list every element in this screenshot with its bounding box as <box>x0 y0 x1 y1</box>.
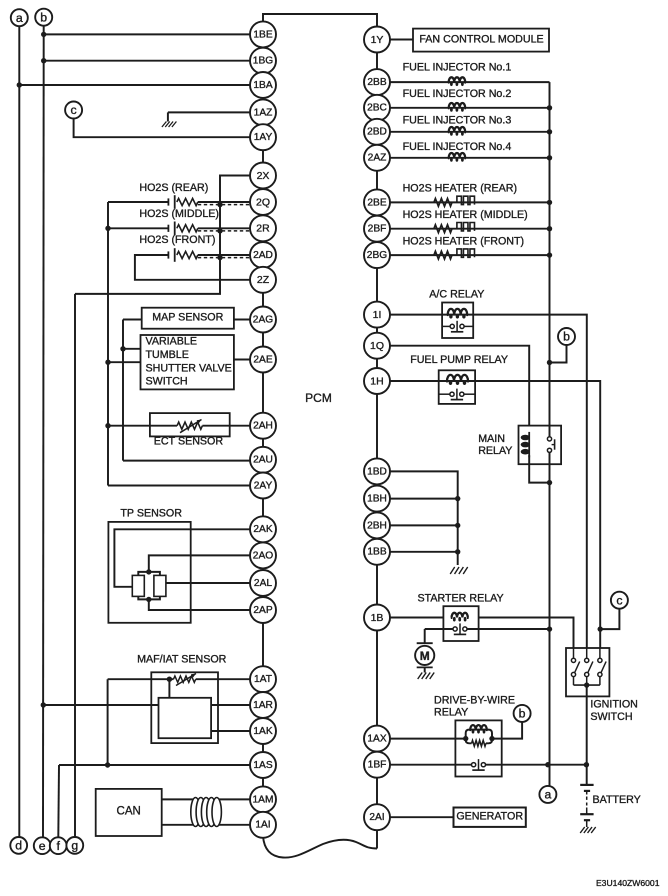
svg-text:2AH: 2AH <box>253 421 273 432</box>
svg-text:E3U140ZW6001: E3U140ZW6001 <box>596 878 660 888</box>
wire 1AX <box>390 736 495 741</box>
wire 1H <box>390 381 600 648</box>
injector L4 wire <box>390 157 550 159</box>
heater 1 coil <box>457 196 475 204</box>
wire 1BF <box>390 762 589 767</box>
svg-text:2BE: 2BE <box>367 197 386 208</box>
svg-text:FUEL INJECTOR No.4: FUEL INJECTOR No.4 <box>403 141 512 153</box>
GENERATOR box <box>454 808 526 827</box>
pin 2AD <box>250 242 276 268</box>
pin 1AK <box>250 718 276 744</box>
label TP SENSOR <box>120 507 182 519</box>
pin 1AX <box>364 726 390 752</box>
svg-text:a: a <box>544 788 551 802</box>
wire 2AK <box>114 529 250 587</box>
wire MAP sensor left <box>123 319 142 321</box>
CAN box <box>96 789 162 836</box>
injector L2 wire <box>390 107 550 109</box>
pin 1BH <box>364 486 390 512</box>
node injector bus junction 2 <box>547 105 552 110</box>
label FUEL INJECTOR No.4 <box>403 141 512 153</box>
svg-text:HO2S (REAR): HO2S (REAR) <box>139 182 208 194</box>
wire injector bus <box>549 82 551 426</box>
wire HO2S FRONT left to 2Z <box>135 255 250 280</box>
svg-text:HO2S (FRONT): HO2S (FRONT) <box>139 234 215 246</box>
starter relay box <box>443 606 478 641</box>
pin 2AG <box>250 307 276 333</box>
node g bottom <box>66 837 83 854</box>
DBW resistor branch <box>466 739 492 747</box>
MAF/IAT outer box <box>151 672 218 743</box>
wire rail MAP-2AU <box>122 320 124 461</box>
TP potentiometer element left <box>132 575 144 596</box>
svg-text:1H: 1H <box>370 375 383 387</box>
ground 1BD group <box>450 567 468 574</box>
pin 1BD <box>364 458 390 484</box>
svg-text:a: a <box>16 11 23 25</box>
svg-text:b: b <box>563 330 570 344</box>
pin 1Y <box>364 27 390 53</box>
wire 1Q to main relay coil <box>390 346 529 426</box>
VTSV switch box <box>141 335 234 389</box>
wire 1Y <box>390 39 413 41</box>
wire VTSV pin1 <box>120 346 140 351</box>
wire 2AO <box>149 555 250 572</box>
pin 1AI <box>250 812 276 838</box>
pin 1AS <box>250 752 276 778</box>
label HO2S HEATER (REAR) <box>403 183 517 195</box>
pin 1BA <box>250 72 276 98</box>
injector L4 coil <box>449 153 466 162</box>
svg-text:ECT SENSOR: ECT SENSOR <box>154 436 224 448</box>
MAP sensor box <box>142 308 234 329</box>
svg-text:1AR: 1AR <box>253 700 273 711</box>
pin 1BB <box>364 539 390 565</box>
wire 1AR <box>41 702 250 707</box>
svg-text:A/C RELAY: A/C RELAY <box>429 289 484 301</box>
label drawing number <box>596 878 660 888</box>
heater 3 resistor <box>434 251 452 259</box>
svg-text:1BF: 1BF <box>368 760 387 771</box>
svg-text:IGNITION: IGNITION <box>590 699 638 711</box>
svg-text:1BH: 1BH <box>367 494 387 505</box>
ground battery <box>580 827 596 833</box>
pin 2BF <box>364 216 390 242</box>
wire 1AS <box>59 762 250 767</box>
heater 3 coil <box>457 249 475 257</box>
pin 2BB <box>364 69 390 95</box>
svg-text:SHUTTER VALVE: SHUTTER VALVE <box>146 362 232 374</box>
heater 1 resistor <box>434 199 452 207</box>
wire 2X shield drain <box>75 176 250 294</box>
pin 2BE <box>364 189 390 215</box>
svg-text:CAN: CAN <box>117 806 141 818</box>
heater 2 wire <box>390 226 552 231</box>
pin 1BE <box>250 21 276 47</box>
battery <box>580 785 593 827</box>
label MAIN RELAY <box>478 433 512 457</box>
pin 2Q <box>250 189 276 215</box>
HO2S FRONT sensor resistor <box>177 251 198 258</box>
svg-text:1B: 1B <box>371 612 384 624</box>
svg-text:SWITCH: SWITCH <box>146 375 188 387</box>
node b mid <box>558 328 575 345</box>
HO2S REAR sensor resistor <box>177 198 198 205</box>
pin 1AZ <box>250 99 276 125</box>
wire rail f <box>57 765 60 837</box>
pin 1I <box>364 302 390 328</box>
pin 1AM <box>250 786 276 812</box>
wire PCM top link 1BE to 1Y <box>263 14 377 27</box>
label HO2S REAR <box>139 182 208 194</box>
svg-text:HO2S HEATER (MIDDLE): HO2S HEATER (MIDDLE) <box>403 209 528 221</box>
ECT thermistor <box>177 420 202 433</box>
svg-text:2BH: 2BH <box>367 520 387 531</box>
svg-text:2X: 2X <box>257 170 270 182</box>
svg-text:1BG: 1BG <box>253 56 273 67</box>
svg-text:f: f <box>56 839 60 853</box>
pin 1AR <box>250 692 276 718</box>
label HO2S FRONT <box>139 234 215 246</box>
svg-text:1AK: 1AK <box>253 726 272 737</box>
pin 1AT <box>250 666 276 692</box>
label FUEL INJECTOR No.3 <box>403 115 512 127</box>
svg-text:M: M <box>420 649 430 663</box>
svg-text:1AS: 1AS <box>253 760 272 771</box>
label IGNITION SWITCH <box>590 699 638 723</box>
svg-text:b: b <box>40 10 47 24</box>
injector L2 coil <box>449 103 466 112</box>
svg-text:2AY: 2AY <box>254 480 273 491</box>
svg-text:1AX: 1AX <box>367 734 386 745</box>
node d bottom <box>10 837 27 854</box>
svg-text:2AO: 2AO <box>253 550 273 561</box>
svg-text:FUEL INJECTOR No.2: FUEL INJECTOR No.2 <box>403 88 512 100</box>
wire 1BB <box>390 549 460 554</box>
svg-text:2BG: 2BG <box>367 250 387 261</box>
pin 1BF <box>364 752 390 778</box>
svg-text:FUEL INJECTOR No.1: FUEL INJECTOR No.1 <box>403 62 512 74</box>
injector L1 wire <box>390 81 550 83</box>
wire HO2S REAR shield (dashed) <box>198 202 250 207</box>
pin 2X <box>250 163 276 189</box>
wire 2AG <box>234 319 250 321</box>
main relay contact <box>547 437 554 453</box>
node injector bus junction 4 <box>547 155 552 160</box>
injector L3 wire <box>390 131 550 133</box>
wire 1BG <box>41 58 250 63</box>
wire ignition to battery <box>586 685 588 785</box>
DBW coil branch <box>466 725 492 739</box>
starter relay coil <box>452 613 468 622</box>
svg-text:1AY: 1AY <box>254 132 273 143</box>
wire HO2S MIDDLE shield (dashed) <box>198 228 250 233</box>
svg-text:1AT: 1AT <box>254 674 272 685</box>
wire rail HO2S return <box>107 202 109 486</box>
fuel pump relay coil <box>447 375 468 385</box>
node f bottom <box>50 837 67 854</box>
node b dbw <box>514 705 531 722</box>
injector L1 coil <box>449 77 466 86</box>
fuel pump relay box <box>439 370 475 404</box>
wire PCM bottom squiggle <box>263 836 377 858</box>
pin 2R <box>250 215 276 241</box>
svg-text:FUEL PUMP RELAY: FUEL PUMP RELAY <box>410 354 508 366</box>
node c right <box>611 592 628 609</box>
wire PCM left column bus <box>262 22 264 837</box>
svg-text:STARTER RELAY: STARTER RELAY <box>418 592 504 604</box>
pin 2AU <box>250 447 276 473</box>
TP potentiometer element right <box>154 575 166 596</box>
wire 1I <box>390 315 587 648</box>
pin 1H <box>364 368 390 394</box>
svg-text:g: g <box>71 839 78 853</box>
wire 1BH <box>390 496 460 501</box>
HO2S FRONT sensor cell <box>168 248 174 262</box>
wire HO2S MIDDLE left <box>105 226 168 231</box>
HO2S REAR sensor cell <box>168 195 174 209</box>
svg-text:FUEL INJECTOR No.3: FUEL INJECTOR No.3 <box>403 115 512 127</box>
wire rail b-e <box>42 26 45 837</box>
ECT sensor box <box>150 413 230 436</box>
node a top <box>11 9 28 26</box>
ground 1AZ <box>162 122 177 128</box>
svg-text:HO2S HEATER (REAR): HO2S HEATER (REAR) <box>403 183 517 195</box>
main relay coil <box>521 432 530 457</box>
wire 2AP <box>149 599 250 610</box>
wire 1AT left <box>108 677 174 698</box>
svg-text:1BE: 1BE <box>253 29 272 40</box>
svg-text:2AE: 2AE <box>253 354 272 365</box>
label ECT SENSOR <box>154 436 224 448</box>
svg-text:2AU: 2AU <box>253 455 273 466</box>
pin 2AZ <box>364 145 390 171</box>
pin 2BG <box>364 242 390 268</box>
pin 2AI <box>364 804 390 830</box>
svg-text:2BF: 2BF <box>368 224 387 235</box>
label DRIVE-BY-WIRE RELAY <box>434 694 515 718</box>
starter relay contact <box>453 623 467 634</box>
label PCM <box>305 391 332 405</box>
label A/C RELAY <box>429 289 484 301</box>
svg-text:VARIABLE: VARIABLE <box>146 335 197 347</box>
label HO2S HEATER (FRONT) <box>403 235 525 247</box>
wire rail a-d <box>18 26 20 837</box>
svg-text:RELAY: RELAY <box>434 707 468 719</box>
svg-text:BATTERY: BATTERY <box>593 794 641 806</box>
DBW relay contact <box>472 759 486 770</box>
wire CAN high <box>162 798 250 800</box>
svg-text:c: c <box>616 593 622 607</box>
node c left <box>65 102 82 119</box>
svg-text:DRIVE-BY-WIRE: DRIVE-BY-WIRE <box>434 694 515 706</box>
pin 2BH <box>364 512 390 538</box>
svg-text:2BD: 2BD <box>367 127 387 138</box>
wire c to 1H line <box>598 609 620 632</box>
ignition switch box <box>566 648 609 696</box>
A/C relay coil <box>448 309 468 319</box>
pin 2AK <box>250 516 276 542</box>
wire HO2S FRONT shield (dashed) <box>198 255 250 260</box>
svg-text:2AZ: 2AZ <box>368 153 387 164</box>
svg-text:PCM: PCM <box>305 391 332 405</box>
wire 2AU <box>123 460 250 462</box>
wire rail g <box>74 294 76 837</box>
svg-text:1AZ: 1AZ <box>254 107 273 118</box>
wire 2AL <box>166 582 250 584</box>
label FUEL PUMP RELAY <box>410 354 508 366</box>
wire CAN low <box>162 824 250 826</box>
wire 1BA <box>17 82 250 87</box>
pin 1AY <box>250 124 276 150</box>
wire 2AI <box>390 816 454 818</box>
pin 2BD <box>364 119 390 145</box>
wire main relay contact pins <box>549 426 551 465</box>
svg-text:SWITCH: SWITCH <box>590 711 632 723</box>
label FUEL INJECTOR No.1 <box>403 62 512 74</box>
pin 2AH <box>250 413 276 439</box>
wire ECT to 2AH <box>202 425 250 427</box>
wire 1BE <box>41 32 250 37</box>
node a bottom <box>539 786 556 803</box>
TP sensor box <box>108 522 190 623</box>
wire PCM right column bus <box>376 27 378 849</box>
wire motor drop <box>424 629 426 643</box>
svg-text:b: b <box>519 707 526 721</box>
svg-text:2BB: 2BB <box>367 77 386 88</box>
pin 2AP <box>250 597 276 623</box>
wire 1B coil <box>390 618 574 649</box>
svg-text:2AD: 2AD <box>253 250 273 261</box>
MAF variable resistor <box>174 674 197 686</box>
heater 2 resistor <box>434 225 452 233</box>
TP bottom link <box>138 596 160 602</box>
svg-text:2AG: 2AG <box>253 314 273 325</box>
ignition switch poles <box>571 648 606 685</box>
heater 1 wire <box>390 200 552 205</box>
wire 2AY <box>108 485 250 487</box>
svg-text:1BD: 1BD <box>367 466 387 477</box>
wire ECT left <box>105 423 177 428</box>
heater 3 wire <box>390 252 552 257</box>
A/C relay box <box>442 303 473 339</box>
svg-text:1BA: 1BA <box>253 80 272 91</box>
wire HO2S REAR left <box>108 201 168 203</box>
svg-text:2Q: 2Q <box>256 196 270 208</box>
pin 1B <box>364 605 390 631</box>
svg-text:2AI: 2AI <box>369 812 384 823</box>
wire rail 1AT-1AS <box>107 679 109 765</box>
wire starter contact right to bus <box>467 628 549 630</box>
svg-text:2R: 2R <box>256 223 270 235</box>
label HO2S HEATER (MIDDLE) <box>403 209 528 221</box>
wire b to bus <box>547 345 567 365</box>
svg-text:2AL: 2AL <box>254 578 272 589</box>
wire 1BD <box>390 471 458 565</box>
wire 2AE <box>234 359 250 361</box>
svg-text:MAIN: MAIN <box>478 433 505 445</box>
svg-text:TUMBLE: TUMBLE <box>146 349 189 361</box>
svg-text:2AP: 2AP <box>253 605 272 616</box>
label STARTER RELAY <box>418 592 504 604</box>
svg-text:1AM: 1AM <box>253 794 274 805</box>
heater 2 coil <box>457 223 475 231</box>
label FUEL INJECTOR No.2 <box>403 88 512 100</box>
svg-text:c: c <box>71 103 77 117</box>
pin 2Z <box>250 267 276 293</box>
node e bottom <box>34 837 51 854</box>
svg-text:2BC: 2BC <box>367 103 387 114</box>
pin 1Q <box>364 333 390 359</box>
svg-text:2AK: 2AK <box>253 524 272 535</box>
HO2S MIDDLE sensor cell <box>168 222 174 236</box>
pin 2AE <box>250 347 276 373</box>
svg-text:HO2S HEATER (FRONT): HO2S HEATER (FRONT) <box>403 235 525 247</box>
pin 2BC <box>364 95 390 121</box>
wire 1AK <box>211 730 250 732</box>
svg-text:e: e <box>39 839 46 853</box>
wire c to 1AY <box>74 119 250 138</box>
svg-text:TP SENSOR: TP SENSOR <box>120 507 182 519</box>
svg-text:d: d <box>15 839 22 853</box>
node b top <box>35 9 52 26</box>
pin 2AL <box>250 570 276 596</box>
pin 1BG <box>250 48 276 74</box>
wire bus below main relay <box>545 464 552 786</box>
label BATTERY <box>593 794 641 806</box>
injector L3 coil <box>449 127 466 136</box>
label HO2S MIDDLE <box>139 208 219 220</box>
svg-text:FAN CONTROL MODULE: FAN CONTROL MODULE <box>419 33 543 45</box>
node injector bus junction 3 <box>547 129 552 134</box>
svg-text:MAP SENSOR: MAP SENSOR <box>152 312 223 324</box>
label MAF/IAT SENSOR <box>137 654 227 666</box>
wire 1AX to b <box>492 722 522 739</box>
svg-text:1AI: 1AI <box>255 820 270 831</box>
HO2S MIDDLE sensor resistor <box>177 225 198 232</box>
wire 1AT right <box>196 678 250 680</box>
starter motor M <box>415 643 434 672</box>
A/C relay contact <box>442 321 473 332</box>
svg-text:GENERATOR: GENERATOR <box>456 811 523 823</box>
svg-text:RELAY: RELAY <box>478 445 512 457</box>
svg-text:1BB: 1BB <box>367 547 386 558</box>
main relay box <box>519 426 562 465</box>
TP top link <box>138 569 160 575</box>
svg-text:MAF/IAT SENSOR: MAF/IAT SENSOR <box>137 654 227 666</box>
wire main relay coil return <box>529 455 552 485</box>
wire VTSV pin2 <box>105 360 140 365</box>
ground starter motor <box>418 673 435 680</box>
wire 1AZ to ground <box>168 112 250 121</box>
wire HO2S MIDDLE signal <box>198 227 250 229</box>
pin 2AO <box>250 542 276 568</box>
CAN twisted pair <box>191 798 222 827</box>
svg-text:1I: 1I <box>373 309 382 321</box>
fuel pump relay contact <box>439 389 475 400</box>
FAN CONTROL MODULE box <box>413 29 549 52</box>
DBW relay box <box>455 720 501 776</box>
wire starter contact left to motor <box>425 628 453 630</box>
wire HO2S REAR signal <box>198 201 250 203</box>
wire 2BH <box>390 523 460 528</box>
ignition switch common <box>574 682 600 687</box>
svg-text:2Z: 2Z <box>257 274 270 286</box>
MAF inner box <box>159 698 212 738</box>
pin 2AY <box>250 473 276 499</box>
svg-text:1Y: 1Y <box>371 34 384 46</box>
svg-text:1Q: 1Q <box>370 340 384 352</box>
